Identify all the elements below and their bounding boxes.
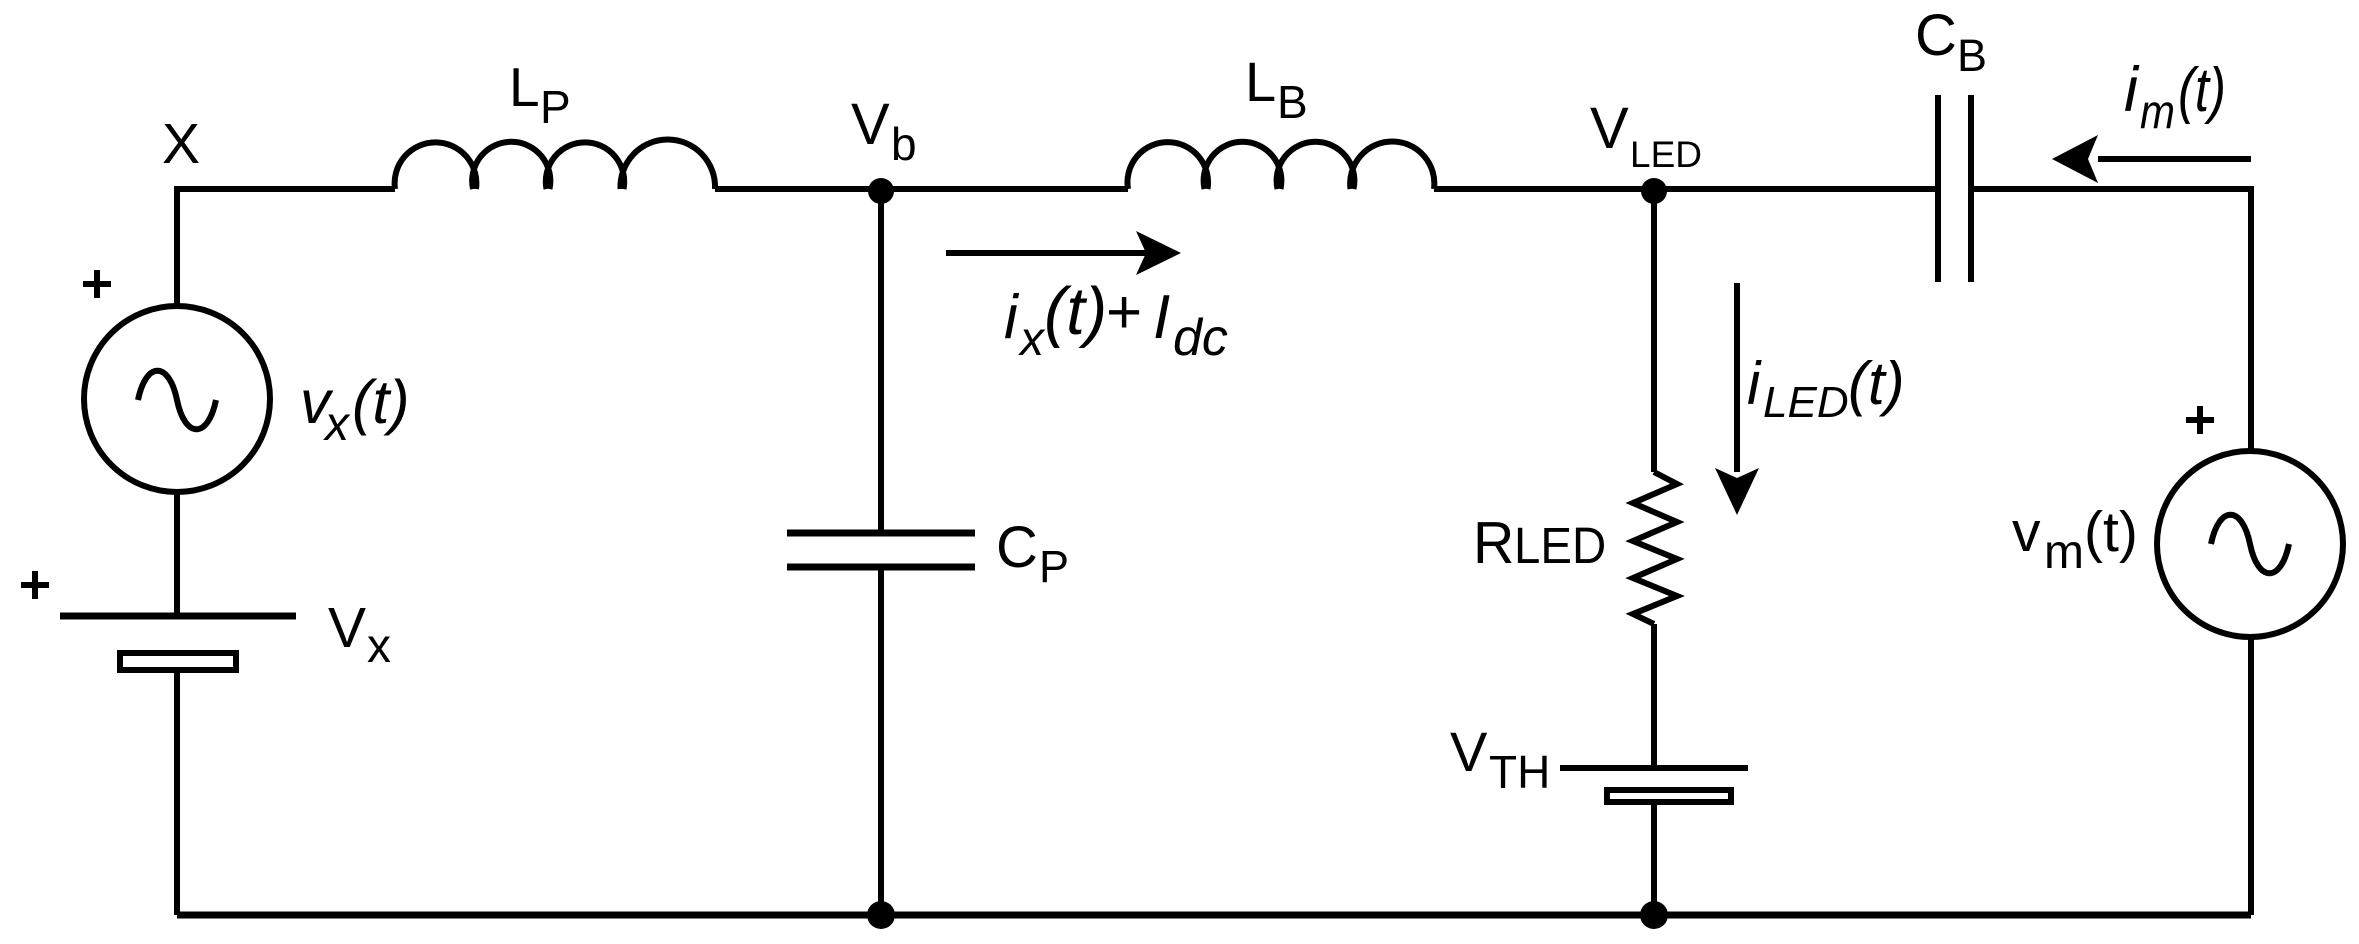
wire vx to battery Vx [174,492,180,613]
battery V_TH long plate [1560,765,1748,771]
wire L_P to L_B through node Vb [715,186,1128,192]
wire top-left from node X corner to L_P [177,189,395,306]
svg-text:(t): (t) [2178,56,2226,125]
wire R_LED to battery V_TH [1651,624,1657,765]
inductor L_P [395,140,715,189]
arrowhead of current i_LED(t) [1715,468,1759,515]
svg-text:LED: LED [1630,134,1702,175]
svg-text:i: i [2124,55,2140,125]
svg-text:V: V [328,596,366,660]
svg-text:V: V [851,92,890,157]
svg-text:P: P [540,81,571,133]
bottom rail wire [177,912,2251,919]
svg-text:V: V [1450,720,1488,783]
svg-text:V: V [1590,96,1629,161]
svg-text:v: v [2012,500,2041,564]
svg-text:L: L [509,56,540,118]
svg-text:LED: LED [1514,517,1606,574]
wire node V_LED down to R_LED [1651,189,1657,472]
svg-text:C: C [1915,3,1957,68]
arrow shaft of current i_x(t)+I_dc [946,250,1148,256]
resistor R_LED zigzag [1633,472,1677,624]
svg-text:TH: TH [1489,746,1550,798]
sine symbol of vm [2211,515,2289,574]
svg-text:+: + [1106,278,1142,347]
svg-text:L: L [1245,50,1276,113]
svg-text:i: i [1747,350,1762,417]
svg-text:x: x [323,398,351,451]
svg-text:B: B [1957,30,1987,81]
junction dot bottom rail below V_LED [1640,901,1668,929]
wire C_P to bottom rail [878,570,884,915]
plus sign of source vx [83,270,111,298]
battery V_TH short plate [1607,790,1731,802]
wire node Vb down to C_P [878,189,884,530]
arrow shaft of current i_m(t) [2098,156,2251,162]
svg-text:LED: LED [1763,378,1849,427]
svg-text:(t): (t) [1848,350,1905,417]
svg-text:m: m [2140,86,2175,139]
wire battery V_TH to bottom rail [1651,805,1657,915]
capacitor C_B [1938,95,1971,282]
svg-text:X: X [162,112,200,176]
label R_LED [1473,510,1514,576]
plus sign of source vm [2186,406,2214,434]
svg-text:C: C [996,515,1038,580]
svg-text:dc: dc [1173,309,1228,367]
junction dot node V_LED [1641,178,1667,204]
battery Vx long plate [60,613,296,620]
svg-text:x: x [367,620,391,673]
wire battery Vx to bottom rail [174,671,180,915]
svg-text:I: I [1153,283,1170,352]
plus sign of battery Vx [21,571,49,599]
arrowhead of current i_x(t)+I_dc [1136,231,1181,275]
arrow shaft of current i_LED(t) [1734,283,1740,472]
battery Vx short plate [120,653,236,670]
capacitor C_P bottom plate [787,564,975,571]
arrowhead of current i_m(t) [2052,135,2098,183]
svg-text:x: x [1018,313,1046,366]
junction dot node Vb [868,178,894,204]
junction dot bottom rail below Vb [867,901,895,929]
svg-text:R: R [1473,510,1514,576]
svg-text:i: i [1004,283,1020,352]
source vx circle [84,306,270,492]
inductor L_B [1127,141,1434,189]
svg-text:(t): (t) [1044,274,1107,349]
source vm circle [2157,451,2343,637]
wire L_B to C_B through node V_LED [1434,186,1935,192]
svg-text:(t): (t) [2084,500,2138,564]
sine symbol of vx [138,371,216,430]
svg-text:m: m [2044,526,2084,579]
svg-text:P: P [1039,541,1069,592]
wire vm to bottom rail [2248,637,2254,915]
svg-text:(t): (t) [352,368,410,436]
svg-text:B: B [1277,76,1308,128]
svg-text:b: b [891,118,917,170]
capacitor C_P top plate [787,530,975,537]
wire C_B to top-right corner down to source vm [1974,189,2251,449]
